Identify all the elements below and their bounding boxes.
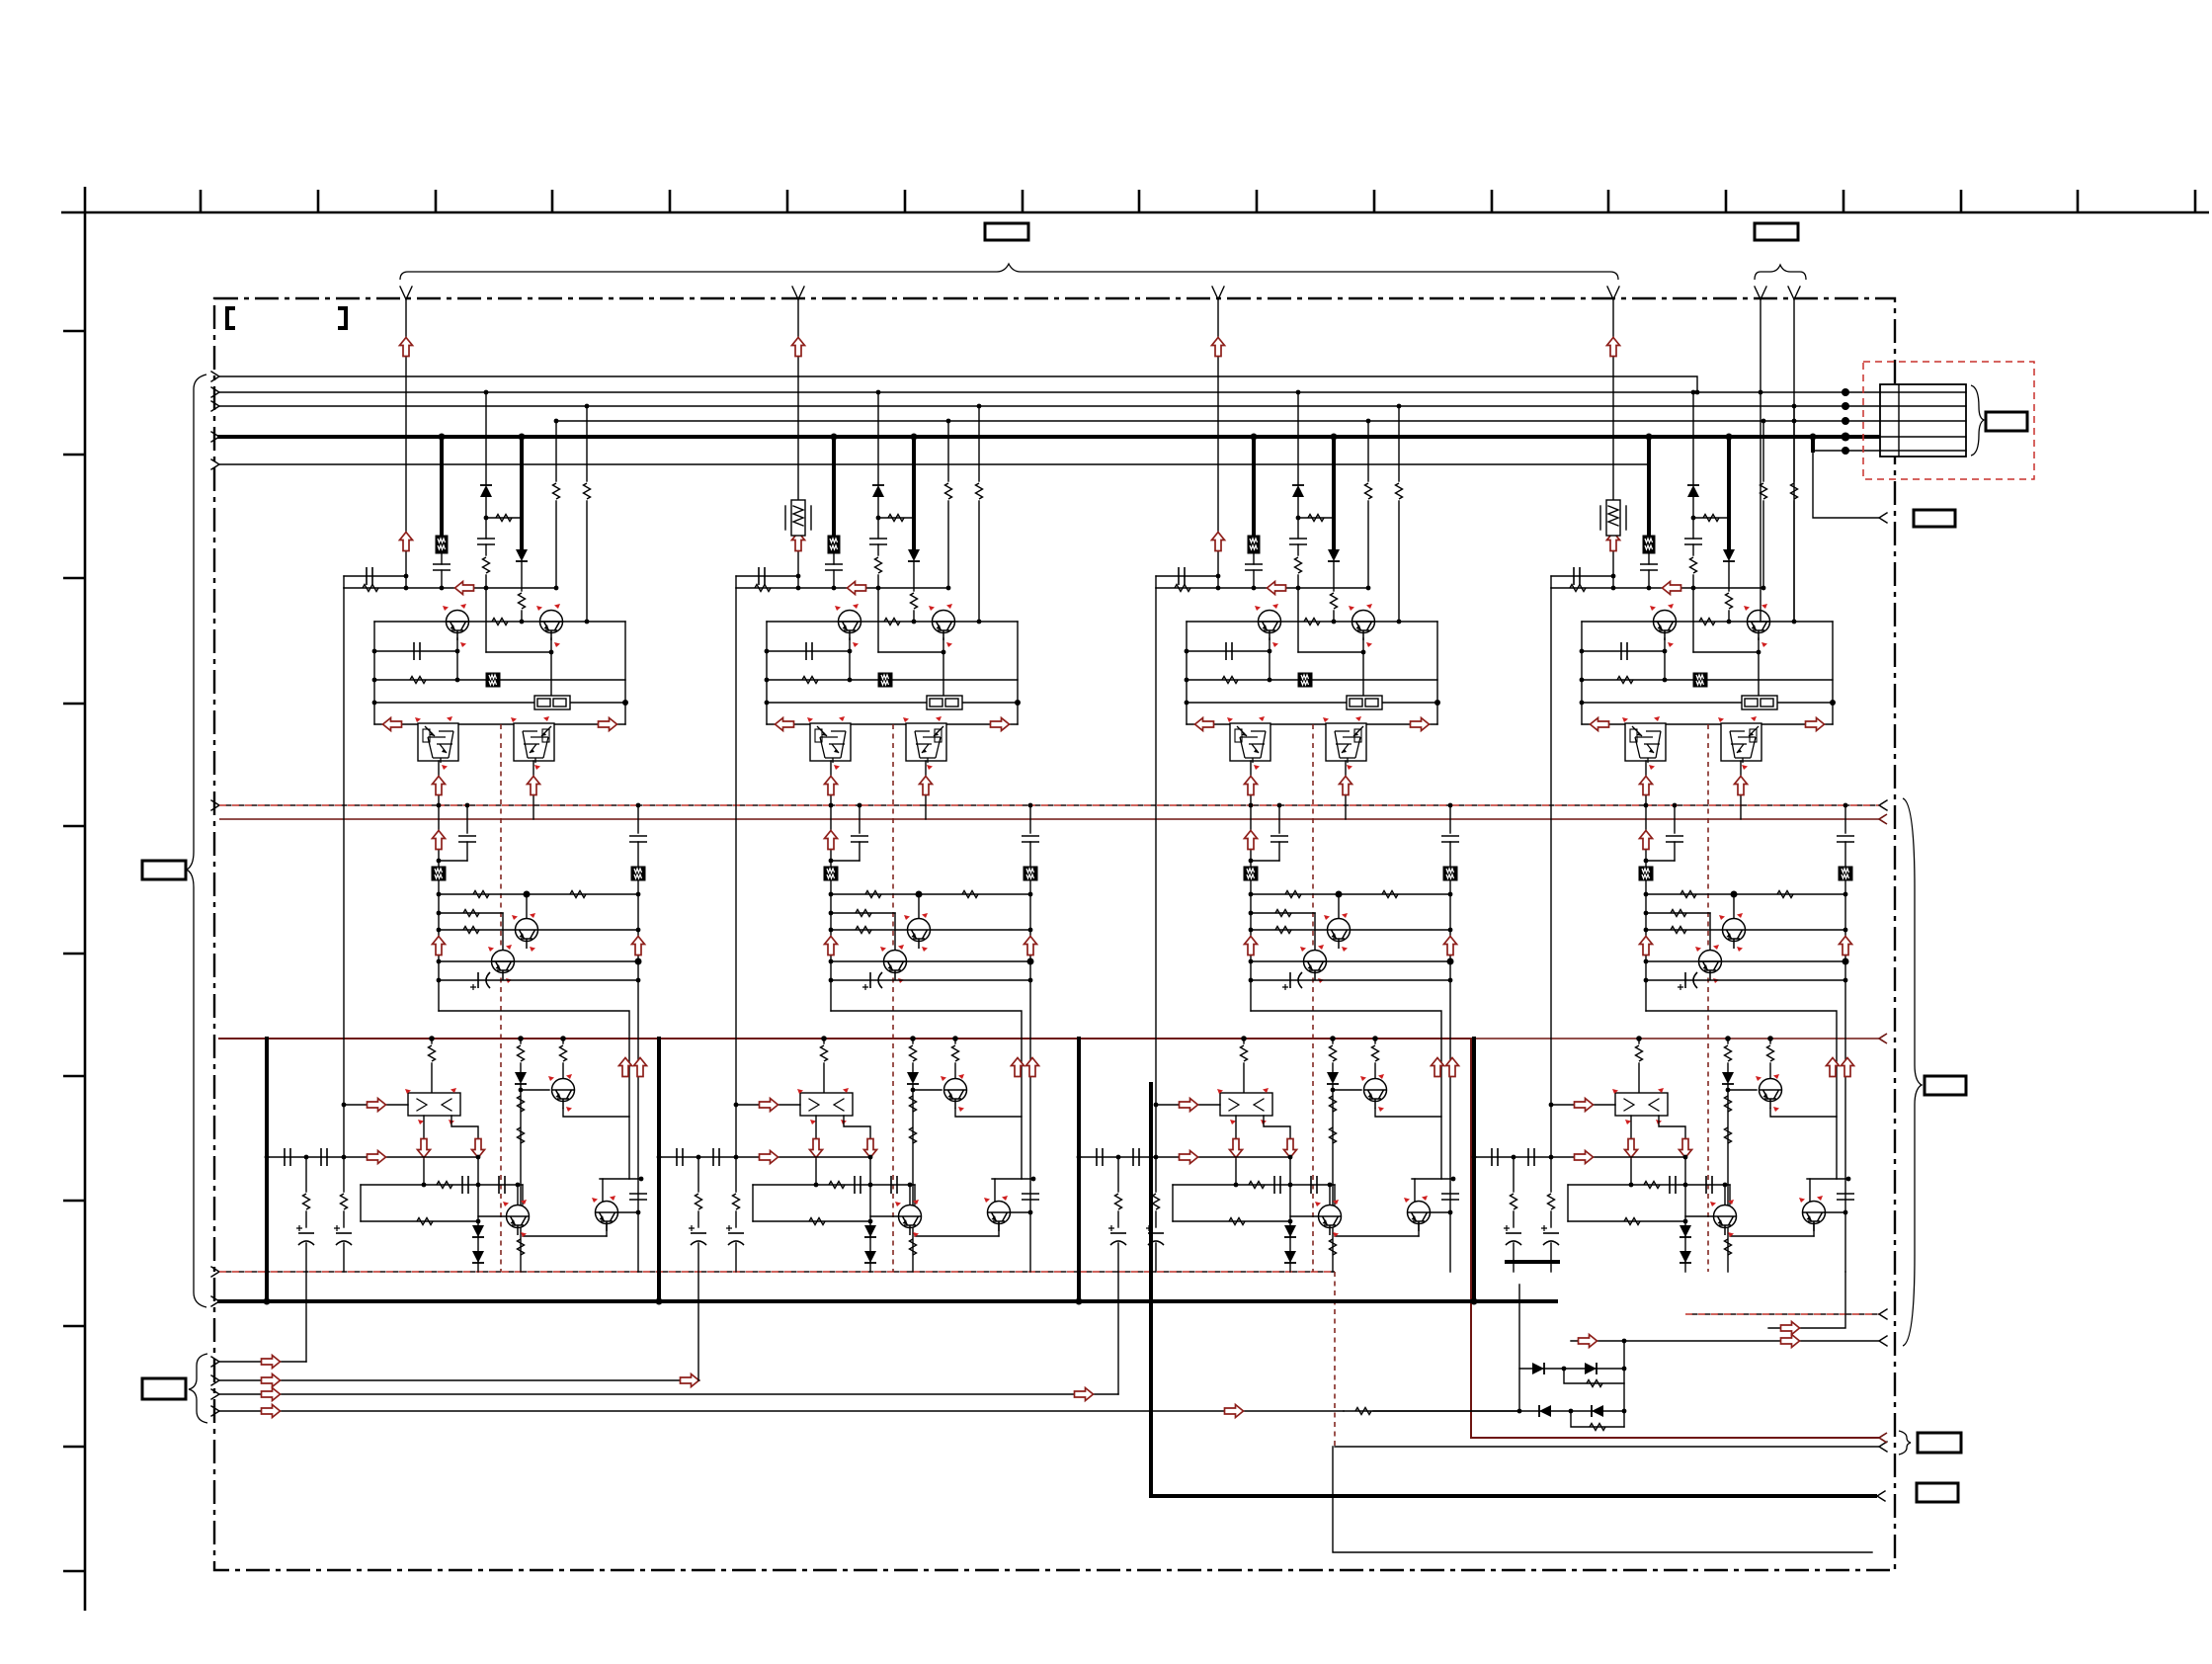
- left label box lower: [142, 1378, 186, 1399]
- label box top right: [1755, 223, 1798, 240]
- diode row lower: [1519, 1410, 1624, 1412]
- bus line V6: [219, 463, 1649, 465]
- FG label box: [1914, 510, 1955, 527]
- ruler left ticks: [63, 331, 85, 1571]
- arrow right on block4 out: [1768, 1272, 1845, 1328]
- bus line V1: [219, 376, 1697, 392]
- ruler vertical line: [84, 187, 87, 1611]
- right label box low2: [1917, 1483, 1958, 1502]
- net M1 maroon bus: [219, 818, 1879, 820]
- wire down to FG exit: [1813, 451, 1879, 518]
- bus line V5 bold: [219, 435, 1893, 439]
- input line 2: [219, 1379, 699, 1381]
- bus line V3: [219, 405, 1880, 407]
- right label box low1: [1918, 1433, 1961, 1453]
- bold bus low: [211, 1296, 219, 1306]
- net RD2 red dashed low bus: [211, 1267, 219, 1277]
- connector right brace: [1971, 385, 1984, 456]
- FG exit arrowhead: [1879, 513, 1887, 523]
- left lower brace: [189, 1354, 207, 1423]
- maroon dashed drop: [1334, 1272, 1336, 1447]
- big top brace: [400, 264, 1618, 280]
- maroon drop from mid bus: [1471, 1039, 1879, 1438]
- bracket labels inside border: [227, 308, 235, 328]
- black exit line low: [1335, 1446, 1879, 1448]
- left label box upper: [142, 861, 186, 879]
- small top brace: [1755, 265, 1806, 280]
- bus line V2: [219, 391, 1880, 393]
- input line 1: [219, 1361, 306, 1363]
- block2/3 input risers: [697, 1272, 699, 1380]
- diode row upper: [1519, 1368, 1624, 1370]
- label box top center: [985, 223, 1028, 240]
- right tall brace: [1903, 798, 1922, 1346]
- red dashed box: [1863, 362, 2034, 479]
- motor label box: [1986, 412, 2027, 431]
- input line 4: [219, 1410, 1344, 1412]
- thin black box line bottom: [1333, 1447, 1872, 1552]
- bold jog to connector row 5: [1811, 437, 1815, 451]
- net M2 maroon mid bus: [219, 1038, 1471, 1040]
- net RD3 red dashed block4 out: [1685, 1313, 1879, 1315]
- bold exit line: [1151, 1084, 1875, 1496]
- net RD1 red dashed bus: [211, 800, 219, 810]
- ruler top ticks: [201, 190, 2195, 212]
- ruler horizontal line: [61, 211, 2209, 214]
- connector junction dots: [1842, 388, 1850, 455]
- right label box mid: [1925, 1076, 1966, 1095]
- connector body: [1880, 384, 1966, 457]
- resonator block4: [1600, 500, 1626, 536]
- resonator block2: [785, 500, 811, 536]
- bus entry arrowheads: [211, 372, 219, 469]
- right exit brace low: [1899, 1431, 1911, 1455]
- black out line block4: [1571, 1340, 1879, 1342]
- input line 3: [219, 1393, 1118, 1395]
- bus line V4: [555, 420, 1880, 422]
- block4 aux feeds: [1755, 287, 1766, 299]
